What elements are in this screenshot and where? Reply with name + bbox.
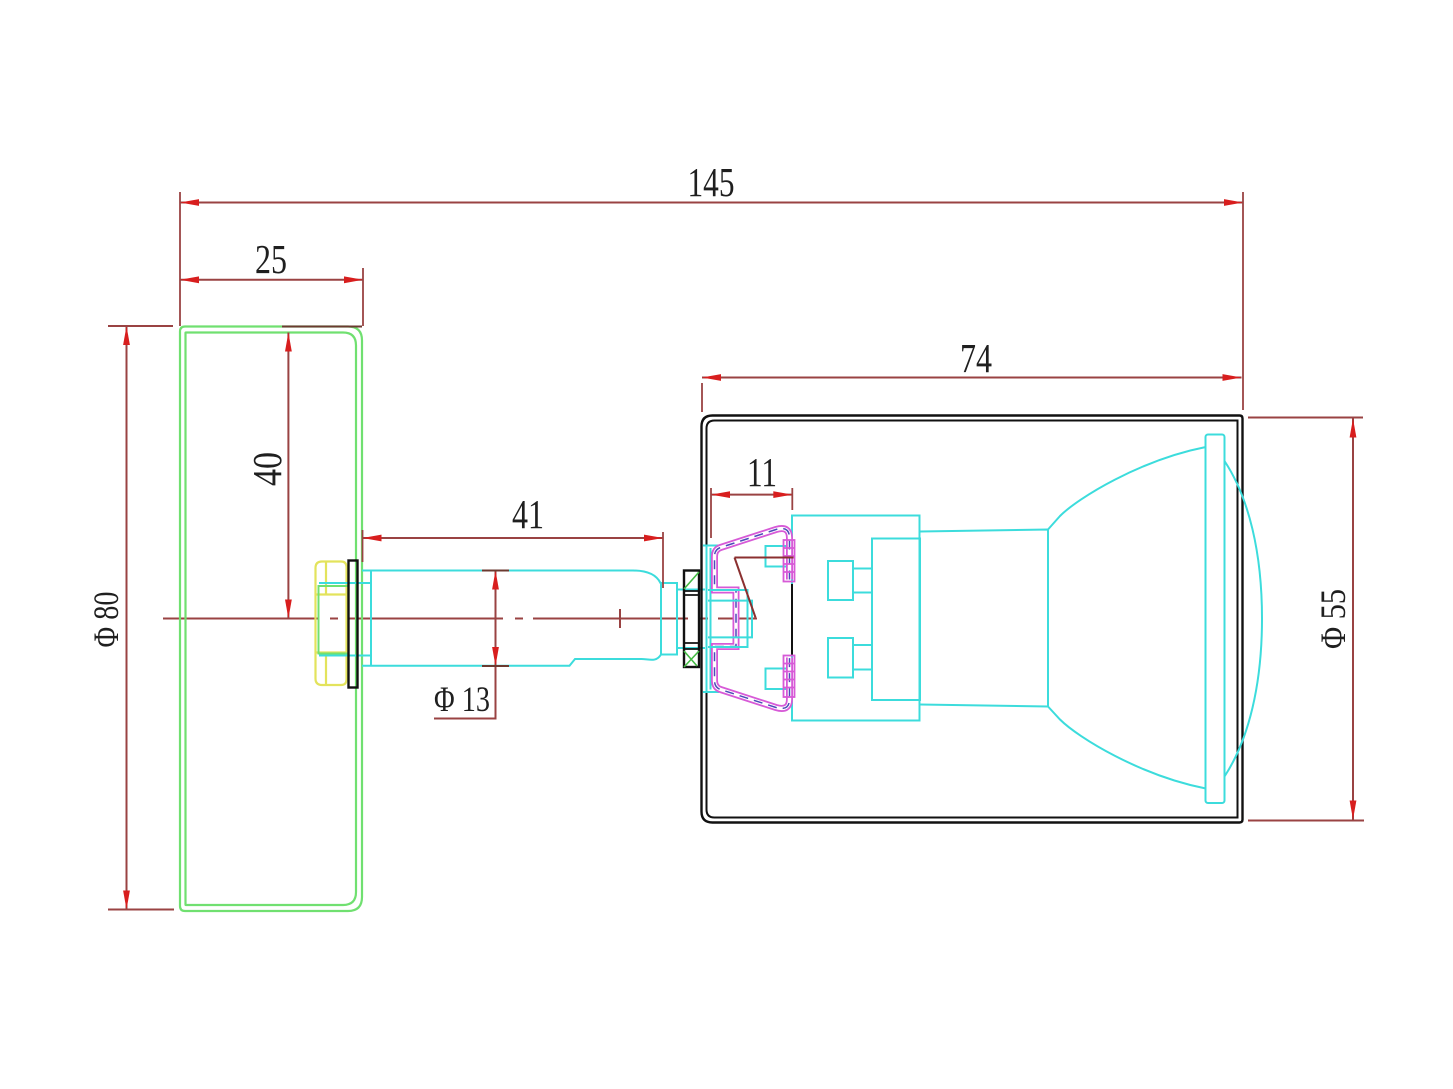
dim phi55 <box>1248 418 1364 821</box>
dim phi13 <box>434 571 509 720</box>
clip back plate (cyan) <box>703 546 719 693</box>
dim 11 <box>711 449 792 538</box>
dim phi80 <box>86 326 174 910</box>
lamp dome <box>1225 461 1263 777</box>
locknut with section hatch <box>684 571 699 668</box>
lamp front rim <box>1206 435 1225 804</box>
svg-text:25: 25 <box>255 236 287 282</box>
svg-text:40: 40 <box>244 452 290 486</box>
dim 25 <box>180 236 363 326</box>
lamp socket block (cyan) <box>792 516 920 721</box>
clip crimp feet (magenta hatched) <box>784 540 795 697</box>
svg-text:Φ 55: Φ 55 <box>1313 589 1353 649</box>
stud stubs (cyan) <box>708 590 752 647</box>
mounting disc (green channel) <box>180 327 362 912</box>
section marks (dark red) <box>735 558 794 618</box>
dim 74 <box>702 335 1242 412</box>
housing (black rounded rect, double wall) <box>702 416 1243 823</box>
centerline <box>163 609 757 628</box>
lamp pins <box>828 561 872 678</box>
shaft (cyan) <box>362 571 705 666</box>
svg-text:11: 11 <box>747 449 777 495</box>
svg-text:145: 145 <box>688 159 735 205</box>
svg-text:Φ 80: Φ 80 <box>86 592 126 648</box>
lamp base rect <box>872 539 920 701</box>
dim 41 <box>363 491 664 588</box>
dim 40 <box>244 327 362 619</box>
washer bar (black) <box>349 561 358 688</box>
reflector bell <box>1048 447 1206 789</box>
dim 145 <box>180 159 1243 410</box>
spring clip (magenta, double line wire) <box>715 529 790 709</box>
bolt washer (green/cyan rect behind washer bar) <box>319 583 372 656</box>
svg-text:41: 41 <box>512 491 544 537</box>
svg-text:Φ 13: Φ 13 <box>434 679 490 719</box>
svg-text:74: 74 <box>960 335 992 381</box>
socket side tabs (cyan) <box>766 546 793 689</box>
socket edge dark segment <box>791 584 793 656</box>
lamp neck cone <box>920 530 1048 707</box>
hex bolt head (yellow) <box>316 562 348 686</box>
